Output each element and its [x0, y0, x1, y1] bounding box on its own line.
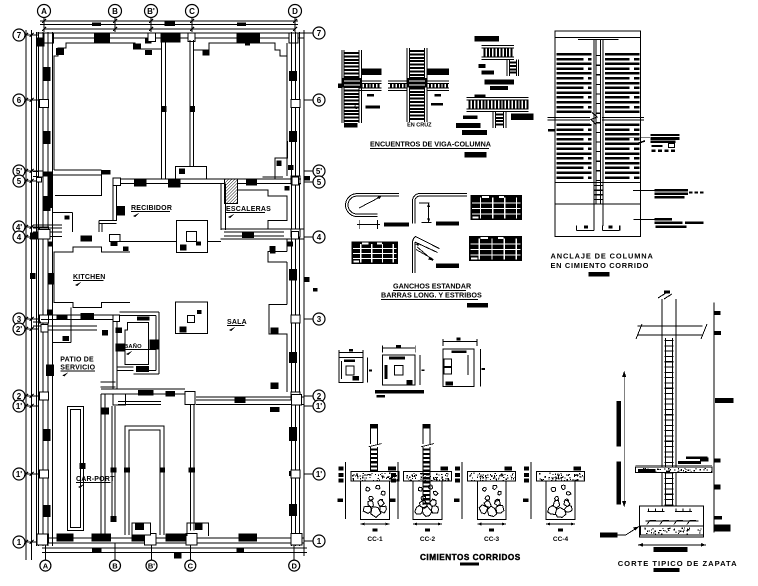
anchorage annotation 1 text	[651, 134, 680, 136]
grid bubble 2' left y329	[13, 323, 25, 335]
kitchen interior stepped outline	[54, 247, 130, 308]
sala right boundary	[286, 239, 288, 251]
grid bubble C top	[186, 5, 199, 18]
svg-text:6: 6	[17, 96, 22, 105]
svg-text:CIMIENTOS CORRIDOS: CIMIENTOS CORRIDOS	[420, 553, 521, 562]
svg-text:GANCHOS ESTANDAR: GANCHOS ESTANDAR	[393, 282, 472, 291]
top-right room bottom step	[275, 141, 288, 179]
svg-text:C: C	[189, 7, 195, 16]
anchorage block courses	[557, 53, 592, 56]
footing ground band	[537, 472, 585, 482]
bottom wall	[37, 537, 304, 539]
footing pit	[477, 481, 506, 519]
hook 135deg	[412, 242, 414, 273]
footing ground band	[468, 472, 516, 482]
grid bubble 5' left y171	[13, 165, 25, 177]
row 2 wall right segment	[196, 396, 304, 398]
zapata left dimension line	[623, 371, 625, 507]
svg-text:B': B'	[147, 7, 155, 16]
detail 3 corner top black bar	[475, 36, 500, 42]
grid bubble 1' left y474	[13, 468, 25, 480]
top-right room interior outline	[194, 43, 287, 141]
svg-text:CC-2: CC-2	[420, 536, 436, 543]
top wall node B'	[148, 33, 155, 41]
row 2 wall fills	[138, 390, 153, 396]
car-port bay at B'	[125, 426, 164, 535]
recibidor jog wall	[99, 220, 117, 222]
zapata footing top bars	[647, 511, 664, 513]
row 4 mid node	[110, 235, 120, 242]
corte tipico de zapata	[600, 291, 738, 573]
top dimension lines	[40, 20, 298, 22]
top-left room interior outline	[54, 43, 162, 170]
zapata bottom dimension	[638, 544, 706, 546]
zapata column break mark top	[658, 293, 672, 299]
detail 1 beam label black bar	[362, 69, 382, 75]
svg-text:BARRAS LONG. Y ESTRIBOS: BARRAS LONG. Y ESTRIBOS	[381, 291, 482, 300]
detail 4 tee top black bar	[475, 95, 486, 98]
svg-text:3: 3	[317, 315, 322, 324]
grid bubble 2 right y396	[313, 390, 325, 402]
top dimension text blobs	[92, 22, 101, 26]
zapata left leader blob	[600, 532, 618, 537]
right wall column fills	[289, 71, 297, 81]
hook 180 dimension	[359, 220, 361, 229]
svg-text:1': 1'	[316, 402, 322, 411]
grid bubble D bottom	[289, 560, 300, 571]
svg-text:4: 4	[17, 233, 22, 242]
zapata mid floor band	[635, 465, 712, 467]
sala NE corner notch	[268, 251, 287, 262]
svg-text:ESCALERAS: ESCALERAS	[226, 206, 271, 213]
grid bubble A bottom	[40, 560, 51, 571]
row 3 node at B	[113, 315, 120, 321]
anchorage annotation 2 leader	[633, 189, 655, 191]
black bar under sections	[375, 390, 424, 393]
car-port line at C	[189, 405, 191, 531]
wall pair below row3 at B	[112, 321, 114, 389]
row 5 pier at C	[175, 166, 206, 179]
svg-text:CORTE TIPICO DE ZAPATA: CORTE TIPICO DE ZAPATA	[618, 559, 738, 568]
svg-text:ENCUENTROS DE VIGA-COLUMNA: ENCUENTROS DE VIGA-COLUMNA	[370, 140, 491, 149]
recibidor wall blob	[117, 206, 125, 216]
pier blob at B row5	[102, 170, 110, 174]
svg-text:SALA: SALA	[227, 319, 247, 326]
svg-text:ANCLAJE DE COLUMNA: ANCLAJE DE COLUMNA	[551, 252, 654, 261]
detail 2 small blob	[434, 94, 441, 97]
grid bubble 2 left y396	[13, 390, 25, 402]
svg-text:1': 1'	[316, 470, 322, 479]
svg-text:5': 5'	[316, 167, 322, 176]
sala top boundary	[113, 241, 176, 243]
zapata footing stirrups	[645, 520, 698, 522]
svg-text:1': 1'	[16, 402, 22, 411]
hook 180deg	[346, 194, 399, 217]
row 4 mid black fill	[81, 235, 92, 241]
bottom wall column fills	[57, 534, 74, 542]
anchorage section line 2	[555, 203, 640, 205]
grid bubble 7 left y35	[13, 29, 25, 41]
svg-text:CC-3: CC-3	[484, 536, 500, 543]
stirrup table bottom-left	[352, 242, 399, 264]
bottom wall nodes	[37, 534, 48, 545]
left wall	[36, 32, 38, 546]
patio NE tick	[102, 330, 108, 335]
detail 3 column ladder	[506, 60, 508, 77]
cimientos corridos details	[338, 424, 585, 566]
encuentros de viga-columna details	[338, 36, 533, 158]
detail 1 lower blob	[365, 106, 380, 109]
anchorage top inner line	[555, 37, 640, 39]
zapata footing	[640, 506, 704, 537]
car-port planter strip 1	[68, 407, 84, 531]
detail 2 beam ladder left	[388, 80, 407, 82]
stirrup table top-right	[471, 195, 523, 220]
grid bubble 1' right y474	[313, 468, 325, 480]
row 5 node at B	[113, 178, 121, 186]
car-port bottom step right	[187, 523, 209, 536]
svg-text:D: D	[292, 7, 298, 16]
section 1	[339, 358, 363, 383]
row 4' wall left segment	[33, 224, 62, 226]
footing pit	[361, 481, 390, 519]
anchorage annotation 1 leader	[605, 137, 650, 139]
svg-text:CC-4: CC-4	[553, 536, 569, 543]
anchorage annotation 3 leader	[633, 219, 654, 221]
bottom dim tick blobs	[92, 549, 101, 554]
svg-text:EN CRUZ: EN CRUZ	[407, 123, 432, 129]
svg-text:B: B	[112, 561, 118, 570]
car-port strip 2 at B	[111, 406, 113, 522]
left dimension lines	[25, 30, 27, 560]
top wall node C	[188, 33, 195, 41]
sub-wall pair below row 2	[118, 401, 161, 403]
detail 1 beam dashes left	[338, 84, 342, 88]
row 2 node B	[113, 394, 126, 405]
anchorage break line	[547, 116, 644, 118]
grid bubble 1' right y406	[313, 400, 325, 412]
svg-text:KITCHEN: KITCHEN	[73, 274, 106, 281]
detail 2 cross junction column	[406, 48, 408, 122]
hook 135 label blob	[436, 264, 459, 268]
anchorage column top tee	[578, 39, 618, 41]
row 5' wall stub at left wall	[33, 170, 43, 172]
footing column hatched into pit	[422, 472, 424, 505]
top wall node A	[44, 33, 53, 43]
hook 180 label blob	[384, 222, 409, 226]
grid bubble 5 left y181	[13, 175, 25, 187]
grid bubble 3 right y319	[313, 313, 325, 325]
grid bubble A top	[38, 5, 51, 18]
sala column footing square	[176, 302, 208, 334]
hook 90 dimension	[419, 202, 430, 204]
recibidor left wall pair at B	[112, 186, 114, 222]
bath wall fills	[115, 344, 125, 352]
patio top boundary	[52, 342, 71, 344]
top wall column fills	[94, 33, 110, 42]
detail 1 T-junction column ladder	[341, 50, 343, 123]
hook 90 label blob	[436, 221, 459, 225]
detail 1 bottom blob	[344, 123, 358, 128]
row 4 node right	[292, 231, 299, 239]
top wall node D	[289, 33, 298, 43]
footing ground band	[404, 472, 452, 482]
svg-text:C: C	[188, 561, 194, 570]
grid bubble B top	[109, 5, 122, 18]
recibidor column footing square	[176, 221, 207, 253]
zapata footing speckle base	[640, 526, 703, 535]
bath room outer walls	[120, 311, 160, 313]
footing pit	[413, 481, 442, 519]
detail 4 column ladder	[492, 111, 494, 128]
detail 4 blob right	[511, 113, 534, 120]
left wall column fills	[43, 67, 51, 81]
detail 4 blob bottom-left	[456, 123, 480, 128]
row 2' stub left	[33, 321, 41, 323]
stirrup table bottom-right	[469, 236, 522, 261]
right wall	[291, 32, 293, 546]
svg-text:CC-1: CC-1	[367, 536, 383, 543]
anchorage column ties lower	[594, 185, 603, 186]
anchorage break tick left	[548, 129, 555, 132]
grid bubble 4 right y237	[313, 231, 325, 243]
grid bubble 1' left y406	[13, 400, 25, 412]
grid bubble C bottom	[185, 560, 196, 571]
right wall nodes	[291, 100, 300, 108]
zapata column tie dashes	[665, 340, 674, 341]
grid bubble 4' left y227	[13, 221, 25, 233]
grid bubble 6 left y100	[13, 94, 25, 106]
svg-text:BAÑO: BAÑO	[124, 343, 142, 350]
footing column stub	[423, 424, 431, 429]
svg-text:B: B	[112, 7, 118, 16]
svg-text:7: 7	[17, 31, 22, 40]
detail 1 small blob	[367, 94, 374, 97]
svg-text:2': 2'	[16, 325, 22, 334]
section 3	[443, 349, 474, 387]
grid bubble 1 left y542	[13, 536, 25, 548]
row 5 node at D	[292, 177, 299, 185]
car-port bay bottom notch	[132, 523, 150, 535]
svg-text:5: 5	[17, 177, 22, 186]
grid bubble 5 right y182	[313, 176, 325, 188]
svg-text:RECIBIDOR: RECIBIDOR	[131, 205, 172, 212]
svg-text:A: A	[43, 561, 49, 570]
row 2 node C	[185, 392, 195, 405]
row 2 wall left segment	[101, 388, 185, 390]
hook 90deg	[412, 200, 414, 224]
right wall interior line	[286, 43, 288, 176]
floor plan	[13, 5, 325, 572]
detail 4 blob bottom	[462, 130, 487, 135]
stub pair right of B wall	[117, 366, 133, 368]
detail 4 blob left	[463, 115, 478, 119]
top wall	[37, 32, 304, 34]
svg-text:5: 5	[317, 178, 322, 187]
column section details	[339, 338, 485, 398]
row 4 wall right segment	[220, 228, 303, 230]
detail 4 beam ladder	[467, 97, 529, 99]
detail 3 blob c	[484, 80, 514, 85]
detail 3 blob a	[479, 64, 486, 68]
hook 135 dimension	[417, 247, 433, 261]
zapata right reference line	[713, 303, 715, 533]
svg-text:B': B'	[148, 561, 155, 570]
carport west top blob	[101, 408, 109, 415]
grid bubble 1 right y541	[313, 535, 325, 547]
anchorage column ties in stripe zone	[596, 55, 601, 56]
stub pair above row2 at B	[100, 381, 115, 383]
detail 3 beam ladder	[481, 45, 514, 47]
zapata left rotated text bars	[617, 401, 622, 446]
left wall vertical blob below row 5	[48, 177, 52, 196]
row 5 wall fills	[134, 179, 147, 186]
detail 2 lower blob	[431, 103, 443, 106]
svg-text:1: 1	[317, 537, 322, 546]
zapata top beam	[638, 325, 703, 327]
top-left room bottom edge	[54, 169, 102, 171]
anchorage outer rect	[555, 31, 640, 237]
escaleras interior steps	[238, 190, 287, 229]
row 5 thin line segment	[263, 176, 283, 178]
carport west boundary pair	[100, 394, 102, 537]
svg-text:PATIO DE: PATIO DE	[60, 357, 94, 364]
grid bubble 6 right y100	[313, 94, 325, 106]
row 3 kitchen wall	[41, 314, 113, 316]
footing ground band	[351, 472, 399, 482]
grid stems top	[43, 18, 45, 33]
anchorage central column	[593, 40, 595, 204]
zapata floor labels	[686, 457, 708, 460]
zapata right tick blobs	[715, 311, 721, 315]
detail 1 leader	[355, 104, 358, 109]
top-left corner tick	[36, 38, 45, 47]
svg-text:SERVICIO: SERVICIO	[60, 364, 95, 371]
grid bubble 7 right y33	[313, 27, 325, 39]
detail 2 beam label black bar	[428, 69, 449, 75]
anchorage column rails to feet	[593, 204, 595, 226]
zapata central column rails	[661, 299, 663, 527]
anchorage section line 1	[555, 181, 640, 183]
svg-text:1': 1'	[16, 470, 22, 479]
detail 1 junction dark block	[343, 78, 362, 87]
bath inner room	[125, 322, 149, 364]
footing column stub	[370, 424, 378, 429]
svg-text:CAR-PORT: CAR-PORT	[76, 476, 115, 483]
detail 3 blob d	[490, 86, 508, 90]
row 5 node left wall	[37, 177, 42, 182]
wall pair between B' and C	[161, 40, 163, 179]
svg-text:4: 4	[317, 233, 322, 242]
grid bubble B' top	[145, 5, 158, 18]
grid stems bottom	[44, 543, 46, 560]
black tick outside right wall row5	[305, 176, 310, 181]
anchorage annotation 2 text	[655, 189, 688, 192]
anchorage rebar feet	[577, 229, 594, 231]
row 3 wall fills	[56, 315, 67, 320]
stairs hatched block ESCALERAS	[225, 179, 238, 204]
kitchen top step	[53, 212, 73, 214]
row 2 node D	[292, 395, 302, 406]
svg-text:D: D	[291, 561, 297, 570]
row 2' node left	[41, 325, 48, 333]
bottom dimension lines	[42, 547, 307, 549]
anchorage annotation 3 text	[655, 218, 672, 221]
left wall nodes	[40, 100, 49, 108]
escaleras left wall pair	[220, 183, 222, 230]
interior wall fills top-left room	[56, 48, 64, 55]
right outer line	[303, 30, 305, 556]
grid bubble B' bottom	[146, 560, 157, 571]
svg-text:A: A	[41, 7, 47, 16]
grid bubble 4 left y237	[13, 231, 25, 243]
svg-text:EN CIMIENTO CORRIDO: EN CIMIENTO CORRIDO	[551, 261, 650, 270]
detail 1 beam ladder	[359, 80, 382, 82]
grid bubble 3 left y319	[13, 313, 25, 325]
anclaje de columna en cimiento corrido	[547, 31, 703, 277]
row 4 node left	[38, 230, 50, 240]
footing pit	[546, 481, 575, 519]
wall pair at C	[189, 40, 191, 179]
row 4 wall left segment	[33, 231, 62, 233]
detail 2 beam ladder right	[427, 80, 449, 82]
detail 2 junction dark block	[408, 78, 427, 87]
section 2	[383, 355, 416, 385]
svg-text:6: 6	[317, 96, 322, 105]
detail 3 blob b	[481, 71, 494, 75]
ganchos estandar details	[346, 194, 522, 308]
hook 180 leader arrow	[359, 197, 381, 209]
grid bubble B bottom	[110, 560, 121, 571]
dim ticks right of wall	[305, 277, 310, 282]
row 5 wall B to D	[113, 178, 301, 180]
svg-text:7: 7	[317, 29, 322, 38]
svg-text:1: 1	[17, 538, 22, 547]
grid bubble D top	[289, 5, 302, 18]
grid bubble 5' right y171	[313, 165, 325, 177]
